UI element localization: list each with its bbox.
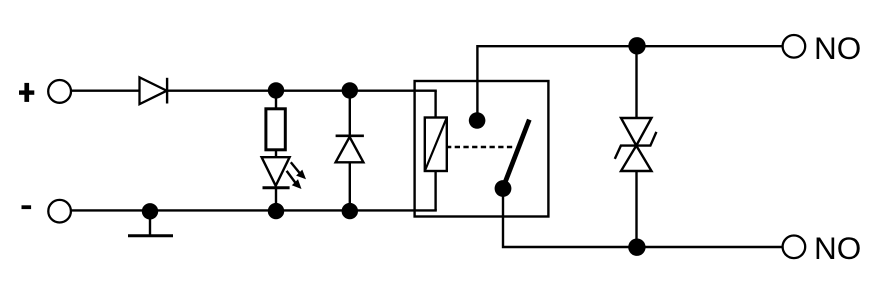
wire LED to bottom rail (275, 188, 277, 211)
node junction top of flyback diode branch (342, 82, 358, 98)
terminal NO top (783, 35, 806, 58)
terminal + (48, 80, 71, 103)
wire suppressor stub top (635, 46, 637, 119)
wire moving contact to bottom rail corner (503, 189, 783, 248)
wire coil stub top (434, 91, 436, 119)
LED emission arrow 1 (291, 162, 306, 179)
ground (128, 211, 173, 236)
wire suppressor stub bottom (635, 171, 637, 247)
transient suppressor RV1 (bidirectional TVS) (615, 118, 657, 171)
wire from + terminal to diode D1 (71, 89, 141, 91)
flyback diode D3 (336, 136, 364, 163)
terminal - (48, 200, 71, 223)
svg-text:NO: NO (814, 30, 861, 66)
wire bottom rail (71, 209, 437, 211)
plus label (19, 83, 34, 102)
node junction top of suppressor branch (628, 37, 645, 54)
wire coil stub bottom (434, 171, 436, 210)
dashed mechanical link coil to contact (446, 146, 515, 149)
LED emission arrow 2 (287, 171, 302, 189)
node junction bottom of suppressor branch (628, 239, 645, 256)
minus label (22, 205, 32, 209)
node junction ground (142, 203, 158, 219)
node junction bottom of resistor branch (268, 203, 284, 219)
wire flyback diode stub bottom (349, 162, 351, 210)
node junction top of resistor branch (268, 82, 284, 98)
wire top rail from D1 to relay coil (167, 89, 437, 91)
relay contact blade (503, 120, 530, 189)
node moving contact (495, 180, 512, 197)
resistor R1 (LED series resistor) (266, 109, 285, 150)
relay coil K1 (425, 118, 447, 172)
diode D1 (series polarity diode) (140, 77, 168, 104)
wire resistor branch stub (275, 90, 277, 110)
wire common contact to top rail corner (477, 46, 782, 120)
wire resistor to LED (275, 150, 277, 159)
node common contact (469, 112, 486, 129)
relay K1 outline box (415, 81, 549, 217)
svg-text:NO: NO (814, 230, 861, 266)
wire flyback diode stub top (349, 90, 351, 136)
node junction bottom of flyback diode branch (342, 203, 358, 219)
terminal NO bottom (783, 236, 806, 259)
LED D2 (262, 157, 290, 188)
